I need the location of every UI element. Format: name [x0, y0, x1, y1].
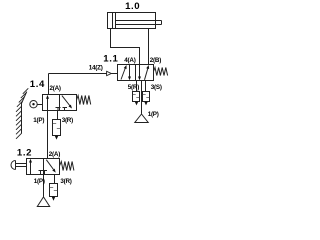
svg-text:4(A): 4(A): [124, 57, 135, 64]
svg-text:2(A): 2(A): [49, 151, 60, 158]
svg-text:3(R): 3(R): [62, 117, 73, 124]
svg-text:3(S): 3(S): [151, 84, 162, 91]
svg-text:14(Z): 14(Z): [89, 65, 103, 72]
svg-text:3(R): 3(R): [60, 178, 71, 185]
svg-text:2(A): 2(A): [50, 85, 61, 92]
svg-text:1.4: 1.4: [30, 79, 45, 90]
svg-text:1(P): 1(P): [33, 117, 44, 124]
svg-text:1.0: 1.0: [125, 1, 140, 12]
svg-text:5(R): 5(R): [128, 84, 139, 91]
svg-text:1(P): 1(P): [34, 178, 45, 185]
svg-text:1.1: 1.1: [103, 53, 118, 64]
svg-text:1(P): 1(P): [148, 111, 159, 118]
svg-text:2(B): 2(B): [150, 57, 161, 64]
svg-text:1.2: 1.2: [17, 147, 32, 158]
